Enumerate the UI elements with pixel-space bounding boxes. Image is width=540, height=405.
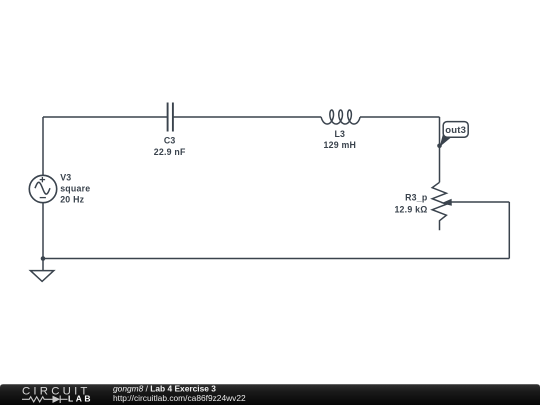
svg-text:129 mH: 129 mH [323,140,356,150]
svg-text:LAB: LAB [68,394,93,404]
svg-text:V3: V3 [60,172,71,182]
svg-text:R3_p: R3_p [405,192,428,202]
svg-text:L3: L3 [334,129,345,139]
svg-text:20 Hz: 20 Hz [60,195,84,205]
svg-text:12.9 kΩ: 12.9 kΩ [394,204,427,214]
svg-text:C3: C3 [164,136,176,146]
svg-text:square: square [60,183,90,193]
svg-text:http://circuitlab.com/ca86f9z2: http://circuitlab.com/ca86f9z24wv22 [113,393,246,403]
svg-text:gongm8 / Lab 4 Exercise 3: gongm8 / Lab 4 Exercise 3 [113,384,216,394]
svg-text:out3: out3 [445,125,466,136]
svg-text:22.9 nF: 22.9 nF [154,147,186,157]
